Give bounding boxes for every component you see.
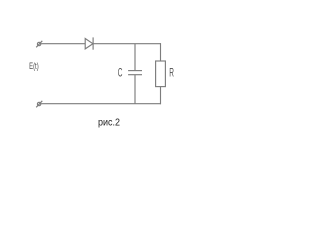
wire: top from diode cathode to top-right corner — [93, 43, 161, 45]
capacitor C plates — [128, 71, 142, 75]
terminal: bottom input — [36, 101, 42, 108]
wire: top from input terminal to diode anode — [41, 43, 85, 45]
resistor R (rectangle body) — [156, 61, 166, 87]
wire: right branch lower segment — [160, 87, 162, 105]
svg-text:R: R — [169, 66, 174, 80]
svg-text:E(t): E(t) — [29, 61, 39, 72]
svg-text:рис.2: рис.2 — [98, 117, 120, 128]
svg-text:C: C — [118, 66, 123, 80]
diode VD (anode left, cathode bar right) — [85, 37, 93, 49]
wire: bottom return from right branch to bottom terminal — [41, 103, 161, 105]
terminal: top input — [36, 41, 42, 48]
wire: capacitor branch upper segment — [134, 44, 136, 71]
wire: right branch upper segment — [160, 43, 162, 61]
wire: capacitor branch lower segment — [134, 75, 136, 104]
